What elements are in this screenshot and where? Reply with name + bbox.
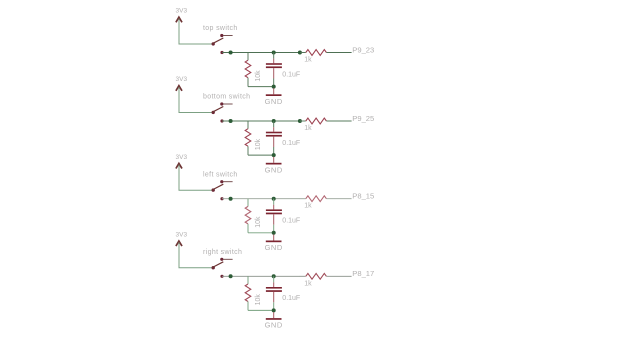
- switch S4 pole contact dot: [212, 266, 215, 269]
- switch S2 lower contact dot: [220, 119, 223, 122]
- switch S1 pole contact dot: [212, 42, 215, 45]
- svg-text:P9_23: P9_23: [352, 45, 374, 54]
- junction dot at capacitor branch (block 1): [272, 51, 276, 55]
- switch S4 upper contact dot: [220, 258, 223, 261]
- wire: top lead of 10k resistor (block 1): [247, 53, 249, 61]
- capacitor 0.1uF top lead (block 1): [273, 59, 275, 64]
- capacitor 0.1uF top plate (block 4): [266, 287, 282, 289]
- switch S4 upper contact stub: [223, 258, 232, 260]
- capacitor 0.1uF bottom plate (block 2): [266, 135, 282, 137]
- svg-text:P8_17: P8_17: [352, 269, 374, 278]
- resistor 1k (series, block 4) zigzag: [306, 273, 327, 279]
- svg-text:3V3: 3V3: [176, 76, 188, 83]
- svg-text:1k: 1k: [304, 57, 312, 64]
- svg-text:3V3: 3V3: [176, 231, 188, 238]
- ground symbol stub (block 1): [273, 88, 275, 94]
- wire: 1k resistor to net label (block 4): [326, 275, 351, 277]
- wire: junction to 1k resistor (block 2): [300, 120, 306, 122]
- wire: top lead of 10k resistor (block 2): [247, 121, 249, 129]
- wire: rail down to capacitor (block 2): [273, 121, 275, 127]
- svg-text:GND: GND: [265, 165, 283, 174]
- switch S4 lever: [212, 262, 223, 268]
- wire: capacitor to gnd node (block 4): [273, 302, 275, 310]
- switch S2 upper contact stub: [223, 103, 232, 105]
- switch S2 upper contact dot: [220, 102, 223, 105]
- wire: bottom lead of 10k resistor (block 4): [247, 302, 249, 311]
- wire: 1k resistor to net label (block 1): [326, 52, 351, 54]
- ground symbol stub (block 4): [273, 312, 275, 318]
- svg-text:right switch: right switch: [203, 249, 242, 256]
- junction dot at gnd node (block 4): [272, 308, 276, 312]
- wire: 3V3 down and right to switch pole (block 1): [179, 19, 212, 44]
- ground symbol bar (block 1): [266, 94, 282, 96]
- junction dot before 1k resistor (block 1): [298, 51, 302, 55]
- wire: horizontal rail from switch to 1k (block 2): [222, 120, 300, 122]
- capacitor 0.1uF top plate (block 2): [266, 132, 282, 134]
- wire: bottom horizontal wire 10k to gnd node (block 1): [248, 86, 274, 88]
- junction dot at switch output (block 1): [229, 51, 233, 55]
- junction dot at capacitor branch (block 4): [272, 274, 276, 278]
- resistor 10k (pulldown, block 4) zigzag: [245, 284, 251, 302]
- resistor 10k (pulldown, block 3) zigzag: [245, 206, 251, 224]
- svg-text:3V3: 3V3: [176, 154, 188, 161]
- svg-text:0.1uF: 0.1uF: [282, 140, 300, 147]
- wire: rail down to capacitor (block 4): [273, 276, 275, 282]
- wire: horizontal rail from switch to 1k (block 4): [222, 275, 300, 277]
- svg-text:0.1uF: 0.1uF: [282, 295, 300, 302]
- capacitor 0.1uF top lead (block 4): [273, 282, 275, 287]
- svg-text:10k: 10k: [255, 70, 262, 82]
- wire: horizontal rail from switch to 1k (block 3): [222, 198, 300, 200]
- resistor 10k (pulldown, block 2) zigzag: [245, 129, 251, 147]
- capacitor 0.1uF bottom lead (block 4): [273, 292, 275, 302]
- switch S3 lower contact dot: [220, 197, 223, 200]
- resistor 1k (series, block 1) zigzag: [306, 50, 327, 56]
- junction dot at switch output (block 3): [229, 197, 233, 201]
- svg-text:P9_25: P9_25: [352, 114, 374, 123]
- svg-text:1k: 1k: [304, 203, 312, 210]
- junction dot at switch output (block 4): [229, 274, 233, 278]
- wire: junction to 1k resistor (block 4): [300, 275, 306, 277]
- capacitor 0.1uF bottom lead (block 1): [273, 68, 275, 78]
- svg-text:top switch: top switch: [203, 25, 238, 32]
- switch S1 lower contact dot: [220, 51, 223, 54]
- wire: 3V3 down and right to switch pole (block 4): [179, 242, 212, 267]
- capacitor 0.1uF bottom plate (block 4): [266, 290, 282, 292]
- svg-text:0.1uF: 0.1uF: [282, 218, 300, 225]
- capacitor 0.1uF bottom lead (block 2): [273, 137, 275, 147]
- svg-text:1k: 1k: [304, 125, 312, 132]
- capacitor 0.1uF top plate (block 3): [266, 209, 282, 211]
- wire: bottom lead of 10k resistor (block 1): [247, 78, 249, 87]
- supply 3V3 (block 3) arrow symbol: [176, 163, 182, 168]
- junction dot before 1k resistor (block 2): [298, 119, 302, 123]
- wire: rail down to capacitor (block 3): [273, 199, 275, 205]
- svg-text:GND: GND: [265, 243, 283, 252]
- svg-text:bottom switch: bottom switch: [203, 94, 250, 101]
- capacitor 0.1uF bottom plate (block 1): [266, 66, 282, 68]
- svg-text:left switch: left switch: [203, 171, 238, 178]
- wire: bottom lead of 10k resistor (block 3): [247, 224, 249, 233]
- supply 3V3 (block 2) arrow symbol: [176, 86, 182, 91]
- switch S3 lever: [212, 184, 223, 190]
- supply 3V3 (block 1) arrow symbol: [176, 17, 182, 22]
- resistor 10k (pulldown, block 1) zigzag: [245, 60, 251, 77]
- wire: bottom horizontal wire 10k to gnd node (block 4): [248, 309, 274, 311]
- supply 3V3 (block 4) arrow symbol: [176, 241, 182, 246]
- wire: 1k resistor to net label (block 2): [326, 120, 351, 122]
- svg-text:3V3: 3V3: [176, 8, 188, 15]
- wire: capacitor to gnd node (block 3): [273, 225, 275, 233]
- switch S2 pole contact dot: [212, 111, 215, 114]
- junction dot at gnd node (block 3): [272, 231, 276, 235]
- ground symbol bar (block 2): [266, 163, 282, 165]
- ground symbol stub (block 2): [273, 157, 275, 163]
- switch S3 upper contact dot: [220, 180, 223, 183]
- svg-text:P8_15: P8_15: [352, 192, 374, 201]
- junction dot at capacitor branch (block 3): [272, 197, 276, 201]
- junction dot at gnd node (block 2): [272, 153, 276, 157]
- capacitor 0.1uF bottom lead (block 3): [273, 214, 275, 224]
- svg-text:10k: 10k: [255, 138, 262, 150]
- wire: bottom horizontal wire 10k to gnd node (block 2): [248, 154, 274, 156]
- switch S3 upper contact stub: [223, 181, 232, 183]
- wire: 1k resistor to net label (block 3): [326, 198, 351, 200]
- switch S1 lever: [212, 38, 223, 44]
- switch S1 upper contact dot: [220, 34, 223, 37]
- wire: top lead of 10k resistor (block 3): [247, 199, 249, 207]
- ground symbol stub (block 3): [273, 235, 275, 241]
- svg-text:10k: 10k: [255, 294, 262, 306]
- ground symbol bar (block 3): [266, 241, 282, 243]
- switch S1 upper contact stub: [223, 35, 232, 37]
- capacitor 0.1uF bottom plate (block 3): [266, 213, 282, 215]
- resistor 1k (series, block 2) zigzag: [306, 118, 327, 124]
- capacitor 0.1uF top lead (block 3): [273, 205, 275, 210]
- svg-text:10k: 10k: [255, 216, 262, 228]
- capacitor 0.1uF top lead (block 2): [273, 127, 275, 132]
- svg-text:GND: GND: [265, 321, 283, 330]
- wire: 3V3 down and right to switch pole (block 3): [179, 165, 212, 190]
- wire: rail down to capacitor (block 1): [273, 53, 275, 59]
- wire: junction to 1k resistor (block 3): [300, 198, 306, 200]
- junction dot at gnd node (block 1): [272, 85, 276, 89]
- wire: top lead of 10k resistor (block 4): [247, 276, 249, 284]
- svg-text:1k: 1k: [304, 280, 312, 287]
- junction dot at switch output (block 2): [229, 119, 233, 123]
- wire: 3V3 down and right to switch pole (block 2): [179, 87, 212, 112]
- capacitor 0.1uF top plate (block 1): [266, 63, 282, 65]
- junction dot at capacitor branch (block 2): [272, 119, 276, 123]
- wire: horizontal rail from switch to 1k (block 1): [222, 52, 300, 54]
- wire: bottom lead of 10k resistor (block 2): [247, 146, 249, 155]
- switch S4 lower contact dot: [220, 275, 223, 278]
- svg-text:0.1uF: 0.1uF: [282, 71, 300, 78]
- switch S2 lever: [212, 107, 223, 113]
- wire: capacitor to gnd node (block 1): [273, 79, 275, 87]
- wire: bottom horizontal wire 10k to gnd node (block 3): [248, 232, 274, 234]
- svg-text:GND: GND: [265, 97, 283, 106]
- ground symbol bar (block 4): [266, 318, 282, 320]
- switch S3 pole contact dot: [212, 188, 215, 191]
- resistor 1k (series, block 3) zigzag: [306, 196, 327, 202]
- wire: capacitor to gnd node (block 2): [273, 147, 275, 155]
- wire: junction to 1k resistor (block 1): [300, 52, 306, 54]
